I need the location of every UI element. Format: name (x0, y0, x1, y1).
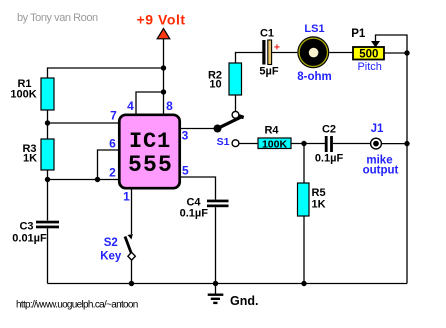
svg-text:8-ohm: 8-ohm (297, 71, 332, 83)
wire R1 to R3 (47, 110, 49, 139)
node dot J1/rail (404, 141, 409, 146)
wire pin 2 (48, 179, 119, 181)
wire C1 to LS1 (272, 52, 298, 54)
wire pin 6 branch (98, 150, 119, 180)
wire C2 to J1 (333, 143, 371, 145)
svg-text:C1: C1 (260, 28, 274, 40)
svg-text:Key: Key (100, 251, 122, 263)
node dot C4/ground (213, 281, 218, 286)
wire R5 top stem (303, 144, 305, 184)
svg-text:1K: 1K (23, 153, 37, 165)
svg-text:0.01µF: 0.01µF (12, 233, 47, 245)
wire P1 right terminal (384, 52, 407, 54)
wire wiper loop (376, 35, 408, 53)
svg-text:Gnd.: Gnd. (230, 294, 258, 308)
resistor R5 (298, 183, 310, 216)
svg-text:555: 555 (128, 152, 173, 178)
svg-text:4: 4 (127, 99, 134, 113)
svg-text:S1: S1 (217, 136, 230, 148)
wire pin 1 (131, 189, 133, 234)
wire bottom rail (48, 283, 408, 285)
wire pin 7 (48, 122, 119, 124)
speaker LS1 (297, 36, 329, 68)
wire right rail (406, 53, 408, 284)
svg-text:5: 5 (182, 164, 189, 178)
svg-text:5µF: 5µF (259, 66, 278, 78)
wire R5 bottom stem (303, 216, 305, 284)
wire LS1 to P1 (329, 52, 353, 54)
capacitor C3 (36, 221, 59, 229)
svg-text:+: + (274, 41, 280, 53)
wire R3 bottom to C3 (47, 170, 49, 221)
svg-text:LS1: LS1 (304, 23, 324, 35)
wire R2 top to C1 (236, 53, 263, 64)
svg-text:6: 6 (109, 137, 116, 151)
capacitor C2 (325, 136, 333, 152)
svg-text:7: 7 (110, 109, 117, 123)
wire pin 5 to C4 (180, 177, 216, 200)
wire S2 to bottom rail (131, 260, 133, 283)
svg-text:S2: S2 (104, 237, 118, 249)
node dot R1/R3/pin7 (45, 120, 50, 125)
wire J1 to right rail (381, 143, 407, 145)
svg-text:3: 3 (182, 129, 189, 143)
svg-text:500: 500 (359, 49, 378, 61)
svg-text:P1: P1 (351, 28, 366, 40)
resistor R4 (258, 138, 291, 149)
node dot R5/rail (301, 281, 306, 286)
svg-text:output: output (363, 165, 399, 177)
wire top rail to R1 (48, 68, 164, 78)
wire pin4 branch (136, 92, 164, 114)
switch S1 lower throw contact (232, 140, 239, 147)
wire +9V stem (163, 39, 165, 68)
jack J1 (371, 138, 382, 149)
svg-text:1K: 1K (312, 199, 326, 211)
switch S2 arrowhead (128, 234, 133, 240)
svg-text:Pitch: Pitch (357, 61, 381, 73)
wire S1 to R4 (239, 143, 258, 145)
node dot P1/wiper (404, 50, 409, 55)
svg-text:J1: J1 (371, 123, 384, 135)
node dot pin6/pin2 (95, 177, 100, 182)
svg-text:+9 Volt: +9 Volt (137, 12, 186, 28)
svg-text:C3: C3 (19, 221, 33, 233)
svg-text:2: 2 (109, 166, 116, 180)
svg-text:C2: C2 (322, 124, 336, 136)
node dot R4/C2/R5 (301, 141, 306, 146)
svg-text:R5: R5 (312, 187, 326, 199)
wire pin8 vertical (163, 68, 165, 114)
P1 wiper arrow (371, 41, 380, 48)
resistor R3 (41, 139, 54, 170)
switch S1 pivot (214, 125, 222, 133)
switch S2 blade (125, 237, 131, 253)
node dot pin4/8 (161, 89, 166, 94)
wire C4 to bottom rail (215, 207, 217, 283)
node dot power rail (161, 65, 166, 70)
svg-text:8: 8 (166, 99, 173, 113)
svg-text:IC1: IC1 (129, 129, 171, 154)
ground symbol (208, 284, 224, 303)
wire R2 bottom stem (235, 95, 237, 111)
switch S1 blade (218, 117, 243, 129)
wire pin 3 (180, 128, 215, 130)
+9V power triangle (157, 29, 170, 39)
wire R4 to C2 (291, 143, 325, 145)
resistor R1 (41, 78, 54, 110)
svg-text:100K: 100K (262, 138, 288, 150)
switch S2 diamond contact (128, 252, 135, 260)
capacitor C1 (electrolytic) (262, 40, 271, 65)
capacitor C4 (207, 200, 229, 208)
svg-text:10: 10 (209, 79, 221, 91)
svg-text:100K: 100K (10, 89, 36, 101)
svg-text:0.1µF: 0.1µF (180, 208, 209, 220)
svg-text:0.1µF: 0.1µF (315, 153, 344, 165)
switch S1 upper throw contact (232, 111, 239, 118)
op-amp-style IC1 555 timer body (119, 115, 179, 188)
node dot S2/rail (129, 281, 134, 286)
svg-text:1: 1 (123, 190, 130, 204)
switch S1 blade tip arrowhead (238, 114, 244, 119)
svg-text:by Tony van Roon: by Tony van Roon (17, 12, 98, 24)
resistor R2 (229, 63, 242, 95)
svg-text:http://www.uoguelph.ca/~antoon: http://www.uoguelph.ca/~antoon (16, 300, 138, 311)
wire C3 to bottom rail (47, 228, 49, 283)
potentiometer P1 body (353, 47, 384, 60)
node dot R3/C3/pin2 (45, 177, 50, 182)
svg-text:R4: R4 (264, 125, 279, 137)
